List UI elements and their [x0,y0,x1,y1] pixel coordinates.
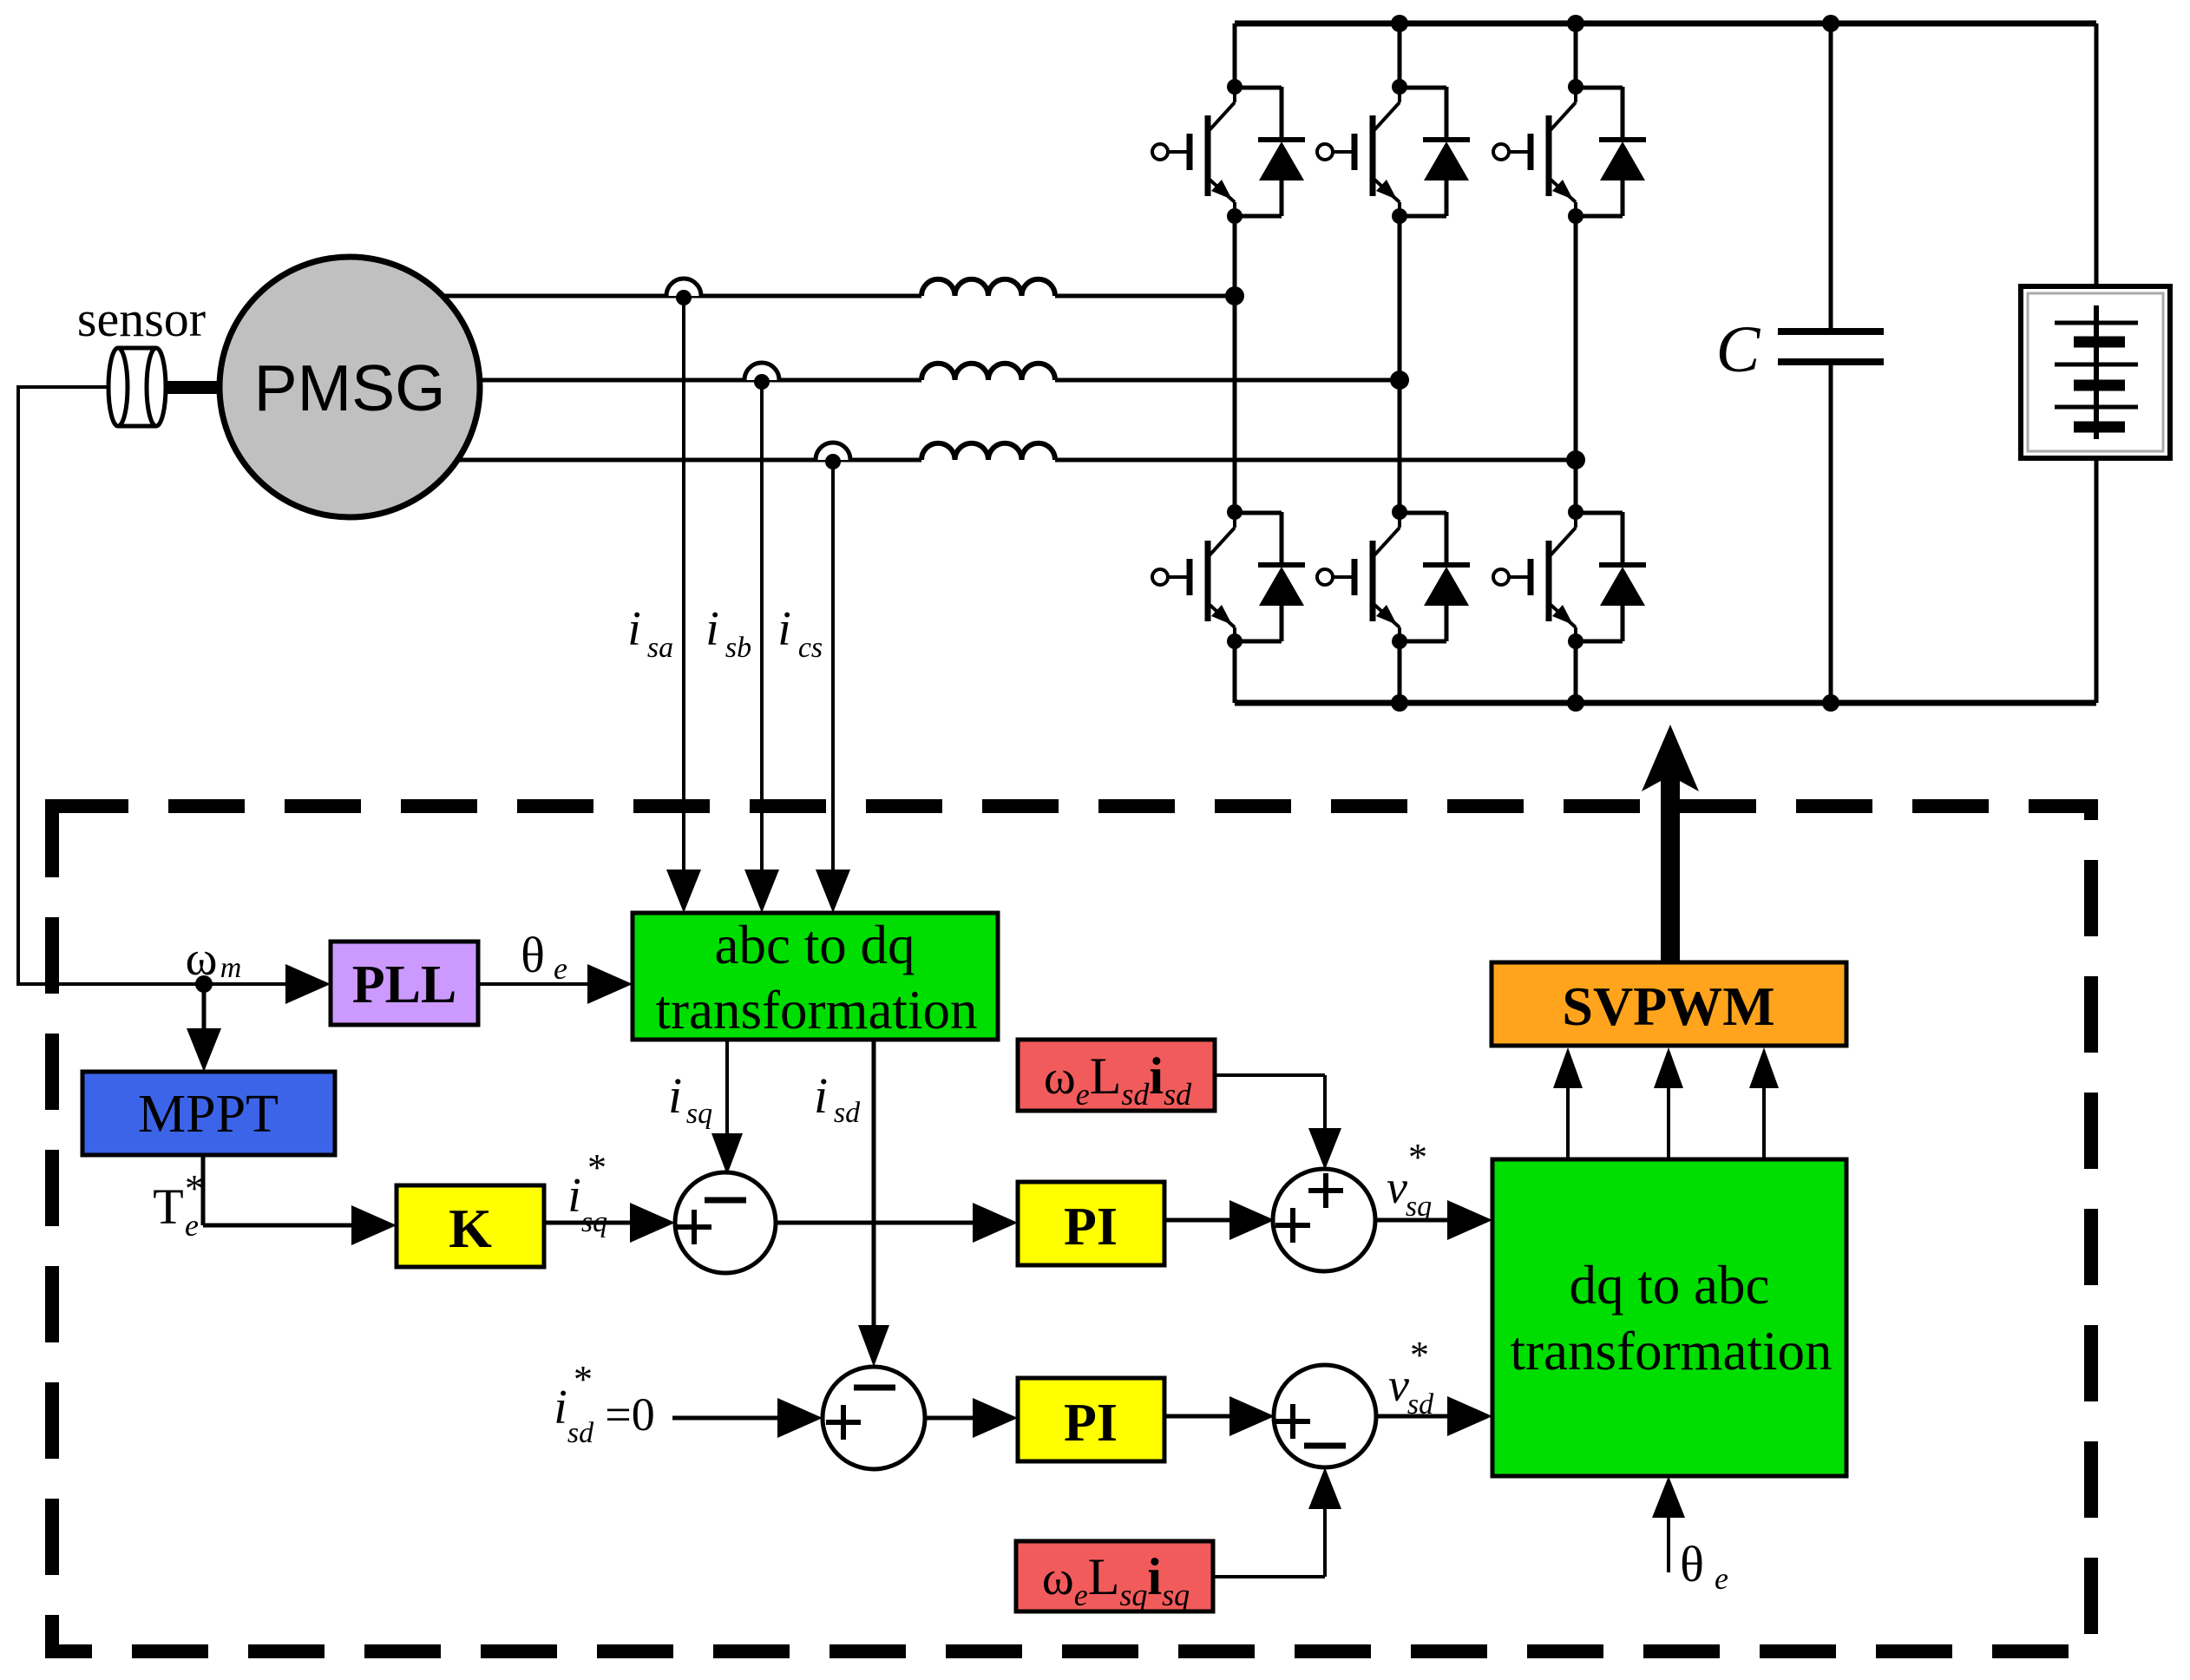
svg-text:PI: PI [1064,1198,1118,1257]
svg-text:*: * [185,1167,204,1210]
svg-text:i: i [777,602,791,656]
svg-text:*: * [587,1146,607,1189]
svg-text:e: e [1715,1561,1728,1596]
svg-text:i: i [814,1067,828,1124]
svg-text:T: T [153,1178,183,1235]
svg-text:PMSG: PMSG [254,351,446,424]
svg-text:SVPWM: SVPWM [1562,975,1774,1037]
svg-text:θ: θ [1680,1536,1704,1592]
svg-text:=0: =0 [605,1388,654,1440]
svg-text:PLL: PLL [352,955,457,1014]
svg-text:cs: cs [798,632,823,664]
svg-text:C: C [1716,313,1761,386]
svg-text:i: i [554,1381,567,1434]
svg-text:sa: sa [647,632,673,664]
svg-text:e: e [185,1208,199,1243]
svg-text:m: m [220,952,242,984]
svg-text:sd: sd [834,1097,861,1129]
svg-text:*: * [574,1358,593,1401]
svg-text:v: v [1387,1161,1407,1213]
svg-text:sq: sq [1406,1191,1432,1223]
svg-text:transformation: transformation [1511,1321,1833,1381]
svg-text:sb: sb [725,632,751,664]
svg-text:dq to abc: dq to abc [1570,1255,1770,1316]
svg-text:i: i [567,1169,581,1223]
svg-text:θ: θ [521,927,545,983]
svg-text:transformation: transformation [656,980,978,1040]
svg-text:MPPT: MPPT [138,1085,279,1144]
svg-text:sd: sd [567,1417,594,1449]
svg-text:*: * [1408,1136,1427,1178]
svg-text:v: v [1388,1359,1409,1411]
svg-text:sensor: sensor [77,291,206,347]
svg-text:i: i [668,1067,682,1124]
svg-text:e: e [554,951,567,986]
svg-text:sd: sd [1407,1388,1434,1421]
svg-text:abc to dq: abc to dq [715,915,915,975]
svg-text:PI: PI [1064,1394,1118,1453]
svg-text:i: i [627,602,641,656]
svg-text:sq: sq [581,1206,607,1238]
svg-text:K: K [449,1198,492,1259]
svg-text:*: * [1410,1334,1429,1376]
svg-text:sq: sq [686,1098,712,1130]
svg-text:i: i [705,602,719,656]
svg-text:ω: ω [186,932,218,986]
